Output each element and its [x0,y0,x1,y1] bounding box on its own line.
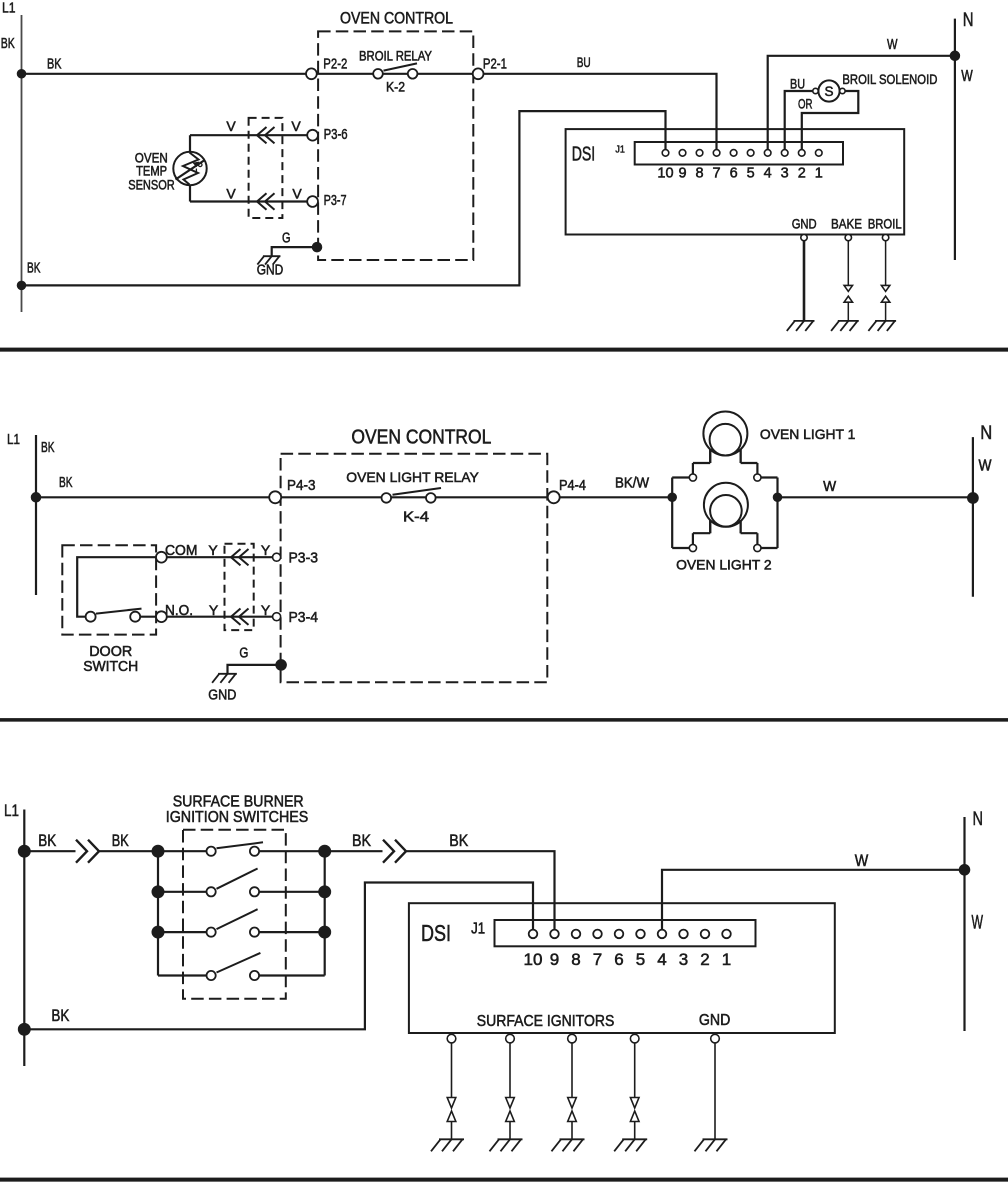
svg-text:SWITCH: SWITCH [83,659,138,675]
svg-text:V: V [226,186,236,202]
svg-text:4: 4 [764,166,772,182]
svg-text:P2-1: P2-1 [483,57,507,73]
svg-text:BK: BK [38,832,56,850]
svg-text:COM: COM [165,543,198,559]
svg-text:10: 10 [657,166,673,182]
svg-text:N: N [973,808,984,830]
svg-text:OVEN CONTROL: OVEN CONTROL [340,10,453,28]
svg-text:SENSOR: SENSOR [128,177,175,192]
svg-text:BROIL RELAY: BROIL RELAY [359,49,432,64]
svg-text:2: 2 [700,950,709,969]
svg-text:N: N [980,423,992,444]
svg-text:J1: J1 [471,921,485,938]
svg-text:BU: BU [790,76,805,92]
svg-text:K-4: K-4 [403,510,429,526]
svg-text:L1: L1 [7,431,20,448]
svg-text:Y: Y [261,602,271,618]
svg-text:7: 7 [713,166,721,182]
svg-text:BK: BK [1,36,15,52]
svg-text:BAKE: BAKE [831,216,862,232]
svg-text:BROIL: BROIL [868,216,902,232]
svg-text:J1: J1 [615,144,625,156]
svg-text:BK: BK [112,832,129,850]
svg-text:GND: GND [792,216,817,232]
svg-text:BROIL SOLENOID: BROIL SOLENOID [842,72,937,87]
svg-text:P3-6: P3-6 [324,127,348,143]
svg-text:K-2: K-2 [386,80,405,95]
svg-text:6: 6 [614,950,623,969]
svg-text:OVEN CONTROL: OVEN CONTROL [351,426,491,448]
svg-text:BK: BK [51,1007,69,1025]
svg-text:W: W [855,852,869,870]
svg-text:9: 9 [550,950,559,969]
svg-text:5: 5 [636,950,645,969]
svg-text:BK: BK [27,261,41,277]
svg-text:OVEN LIGHT 2: OVEN LIGHT 2 [676,557,772,573]
svg-text:P2-2: P2-2 [323,57,347,73]
svg-text:4: 4 [657,950,666,969]
svg-text:L1: L1 [2,0,16,17]
svg-text:W: W [823,479,836,495]
svg-text:9: 9 [678,166,686,182]
svg-text:P4-4: P4-4 [559,478,586,494]
svg-text:BK: BK [59,475,73,491]
svg-text:W: W [887,37,898,53]
svg-text:V: V [292,186,302,202]
svg-text:BK: BK [41,440,55,456]
svg-text:8: 8 [571,950,580,969]
svg-text:P3-3: P3-3 [289,551,319,567]
svg-text:GND: GND [257,263,284,279]
svg-text:P3-4: P3-4 [289,610,319,626]
svg-text:V: V [291,118,301,134]
svg-text:W: W [961,68,973,85]
svg-text:3: 3 [679,950,688,969]
svg-text:Y: Y [261,542,271,558]
svg-text:DOOR: DOOR [89,644,132,660]
svg-text:V: V [226,118,236,134]
svg-text:BK: BK [352,832,371,850]
svg-text:Y: Y [208,542,218,558]
svg-text:BU: BU [577,55,591,70]
svg-text:GND: GND [208,688,236,704]
svg-text:IGNITION SWITCHES: IGNITION SWITCHES [166,809,309,826]
svg-text:DSI: DSI [572,143,596,165]
svg-text:3: 3 [781,166,789,182]
svg-text:Y: Y [209,602,219,618]
svg-text:BK: BK [47,57,62,73]
svg-text:G: G [239,646,248,662]
svg-text:SURFACE IGNITORS: SURFACE IGNITORS [477,1013,615,1030]
svg-text:2: 2 [798,166,806,182]
svg-text:OVEN LIGHT RELAY: OVEN LIGHT RELAY [346,469,479,485]
svg-text:7: 7 [593,950,602,969]
svg-text:S: S [824,84,833,99]
svg-text:G: G [282,231,291,247]
svg-text:BK/W: BK/W [615,476,649,492]
svg-text:N.O.: N.O. [165,603,193,619]
svg-text:P3-7: P3-7 [324,193,347,209]
svg-text:N: N [963,10,974,31]
svg-text:W: W [972,913,984,934]
svg-text:W: W [979,458,992,475]
svg-text:L1: L1 [4,801,19,820]
svg-text:6: 6 [730,166,738,182]
svg-text:P4-3: P4-3 [287,478,316,494]
svg-text:1: 1 [815,166,823,182]
svg-text:5: 5 [747,166,755,182]
svg-text:BK: BK [449,832,468,850]
svg-text:OVEN LIGHT 1: OVEN LIGHT 1 [760,426,856,442]
svg-text:DSI: DSI [421,920,451,946]
svg-text:GND: GND [699,1012,731,1029]
svg-text:OR: OR [798,96,813,112]
svg-text:1: 1 [722,950,731,969]
svg-text:10: 10 [524,950,543,969]
svg-text:8: 8 [696,166,704,182]
